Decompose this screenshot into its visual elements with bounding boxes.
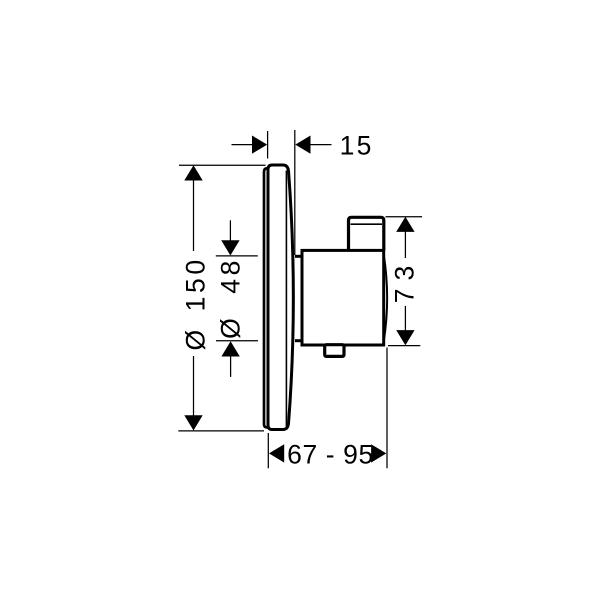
dim 67-95: right extension line [386,348,388,469]
valve body right face curve [384,255,387,341]
svg-text:73: 73 [389,258,419,303]
dim Ø48: bottom arrow with leader [221,341,239,377]
escutcheon plate back flange [264,168,269,427]
shut-off handle inner line [351,223,383,225]
svg-text:Ø 150: Ø 150 [180,256,210,350]
valve sleeve connector bottom [295,339,301,342]
dim Ø48: top arrow with leader [221,220,239,255]
dim 15: left extension line [267,131,269,159]
dim Ø150: top arrow [184,165,202,180]
dim Ø150: dimension line [193,178,195,420]
dim 73: bottom arrow [396,330,414,345]
dim 15: right extension line [294,130,296,255]
valve body [302,250,384,345]
dim 67-95: left arrow [269,444,284,462]
bottom tab (function block) [325,345,344,357]
dim 73: top arrow [396,217,414,232]
dim 73: top extension line [386,216,423,218]
dim 15: left arrow with leader [232,136,268,154]
escutcheon plate outer profile [268,165,293,430]
dim Ø150: bottom extension line [178,430,264,432]
dim 73: bottom extension line [388,345,420,347]
svg-text:15: 15 [340,130,374,160]
dim Ø150: bottom arrow [184,415,202,430]
dim 67-95: right arrow [371,444,386,462]
dim Ø48: bottom extension line [216,340,258,342]
svg-text:67 - 95: 67 - 95 [287,440,374,470]
dim 73: dimension line [404,230,406,332]
dim Ø48: top extension line [216,255,258,257]
shut-off handle knob [349,217,384,250]
dim Ø150: top extension line [179,164,266,166]
dim 15: right arrow with leader [295,136,331,154]
escutcheon plate inner face line [285,171,287,427]
dim 67-95: left extension line [267,433,269,468]
svg-text:Ø 48: Ø 48 [216,257,246,339]
valve sleeve connector top [295,255,301,258]
